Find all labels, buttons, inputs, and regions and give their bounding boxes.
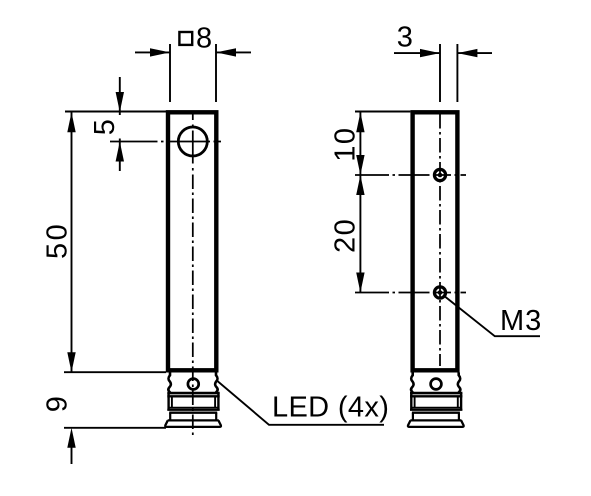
side ring right side (458, 413, 460, 421)
side connector nut right side (460, 393, 462, 410)
arrow right-pointing at hole axis (420, 49, 440, 57)
side flange outline (408, 420, 464, 427)
arrow up at top of 50 (67, 112, 75, 132)
svg-text:20: 20 (329, 218, 361, 253)
dimension square-8 line left segment (135, 51, 170, 53)
front view body outline (168, 112, 216, 370)
front view vertical centerline (192, 113, 194, 171)
upper mounting hole (434, 169, 445, 180)
arrow right-pointing at left edge (150, 48, 170, 56)
arrow up at top of 20 (356, 175, 364, 195)
svg-text:LED (4x): LED (4x) (272, 392, 389, 424)
side view body outline (413, 112, 458, 370)
arrow down at bottom of 20 (356, 273, 364, 293)
dimension 5 lower line with up arrow (119, 139, 121, 172)
dimension square-8 extension line left (169, 44, 171, 102)
square symbol of dimension 8 (179, 32, 192, 45)
side nut left chamfer line (414, 396, 416, 407)
arrow down at bottom of 10 (356, 155, 364, 175)
arrow left-pointing at right edge (457, 49, 477, 57)
front connector neck left profile (168, 373, 171, 394)
dimension 3 extension line at right edge (456, 44, 458, 102)
svg-text:M3: M3 (500, 305, 542, 337)
dimension square-8 extension line right (215, 44, 217, 102)
arrow down at bottom of 50 (67, 352, 75, 372)
svg-text:10: 10 (329, 126, 361, 161)
front connector nut top line 1 (167, 392, 219, 395)
side flange top line (410, 419, 461, 421)
side LED window circle (431, 379, 442, 390)
front connector nut right side (217, 393, 219, 410)
front nut left chamfer line (171, 396, 173, 407)
front nut right chamfer line (214, 396, 216, 407)
sensing face circle (178, 127, 207, 156)
dimension 3 extension line at hole axis (439, 44, 441, 102)
lower mounting hole M3 (434, 287, 445, 298)
front flange outline (165, 420, 221, 427)
svg-text:8: 8 (196, 23, 212, 55)
dimension 5 upper line with down arrow (119, 77, 121, 115)
front connector nut top line 2 (167, 395, 219, 397)
side nut right chamfer line (457, 396, 459, 407)
dimension 9 lower line with up arrow (71, 445, 73, 464)
side nut outer bottom line (410, 409, 462, 411)
M3 leader line (443, 295, 540, 336)
body bottom extension line to the left (64, 371, 166, 373)
side ring left side (412, 413, 414, 421)
side connector nut top line 1 (410, 392, 462, 395)
side connector neck right profile (458, 373, 461, 394)
side view vertical centerline (439, 114, 441, 366)
side connector neck left profile (411, 373, 414, 394)
front connector neck right profile (215, 373, 218, 394)
dimension 3 line left segment (394, 52, 440, 54)
dimension 10 line (359, 112, 361, 175)
side ring top line (412, 412, 460, 414)
dimension 20 line (359, 175, 361, 293)
top edge extension line to the left (65, 111, 166, 113)
lower hole horizontal centerline (355, 292, 466, 294)
svg-text:50: 50 (42, 222, 74, 259)
svg-text:5: 5 (89, 119, 121, 135)
front ring left side (169, 413, 171, 421)
side top edge extension line to the left (355, 111, 410, 113)
front nut outer bottom line (167, 409, 219, 411)
front LED window circle (188, 379, 199, 390)
upper hole horizontal centerline (355, 174, 466, 176)
side connector nut top line 2 (410, 395, 462, 397)
sensing circle horizontal centerline (110, 141, 221, 143)
dimension 50 line (71, 112, 73, 372)
svg-text:3: 3 (397, 22, 413, 54)
dimension 3 line right segment (457, 52, 492, 54)
side connector nut left side (410, 393, 412, 410)
front ring top line (169, 412, 217, 414)
front flange top line (168, 419, 219, 421)
dimension square-8 line right segment (216, 51, 251, 53)
side nut inner bottom line (411, 407, 461, 409)
svg-text:9: 9 (41, 396, 73, 412)
front nut inner bottom line (168, 407, 218, 409)
arrow left-pointing at right edge (216, 48, 236, 56)
front connector nut left side (167, 393, 169, 410)
front ring right side (215, 413, 217, 421)
arrow up at top of 10 (356, 112, 364, 132)
connector bottom extension line (64, 427, 166, 429)
LED leader line (217, 381, 384, 425)
